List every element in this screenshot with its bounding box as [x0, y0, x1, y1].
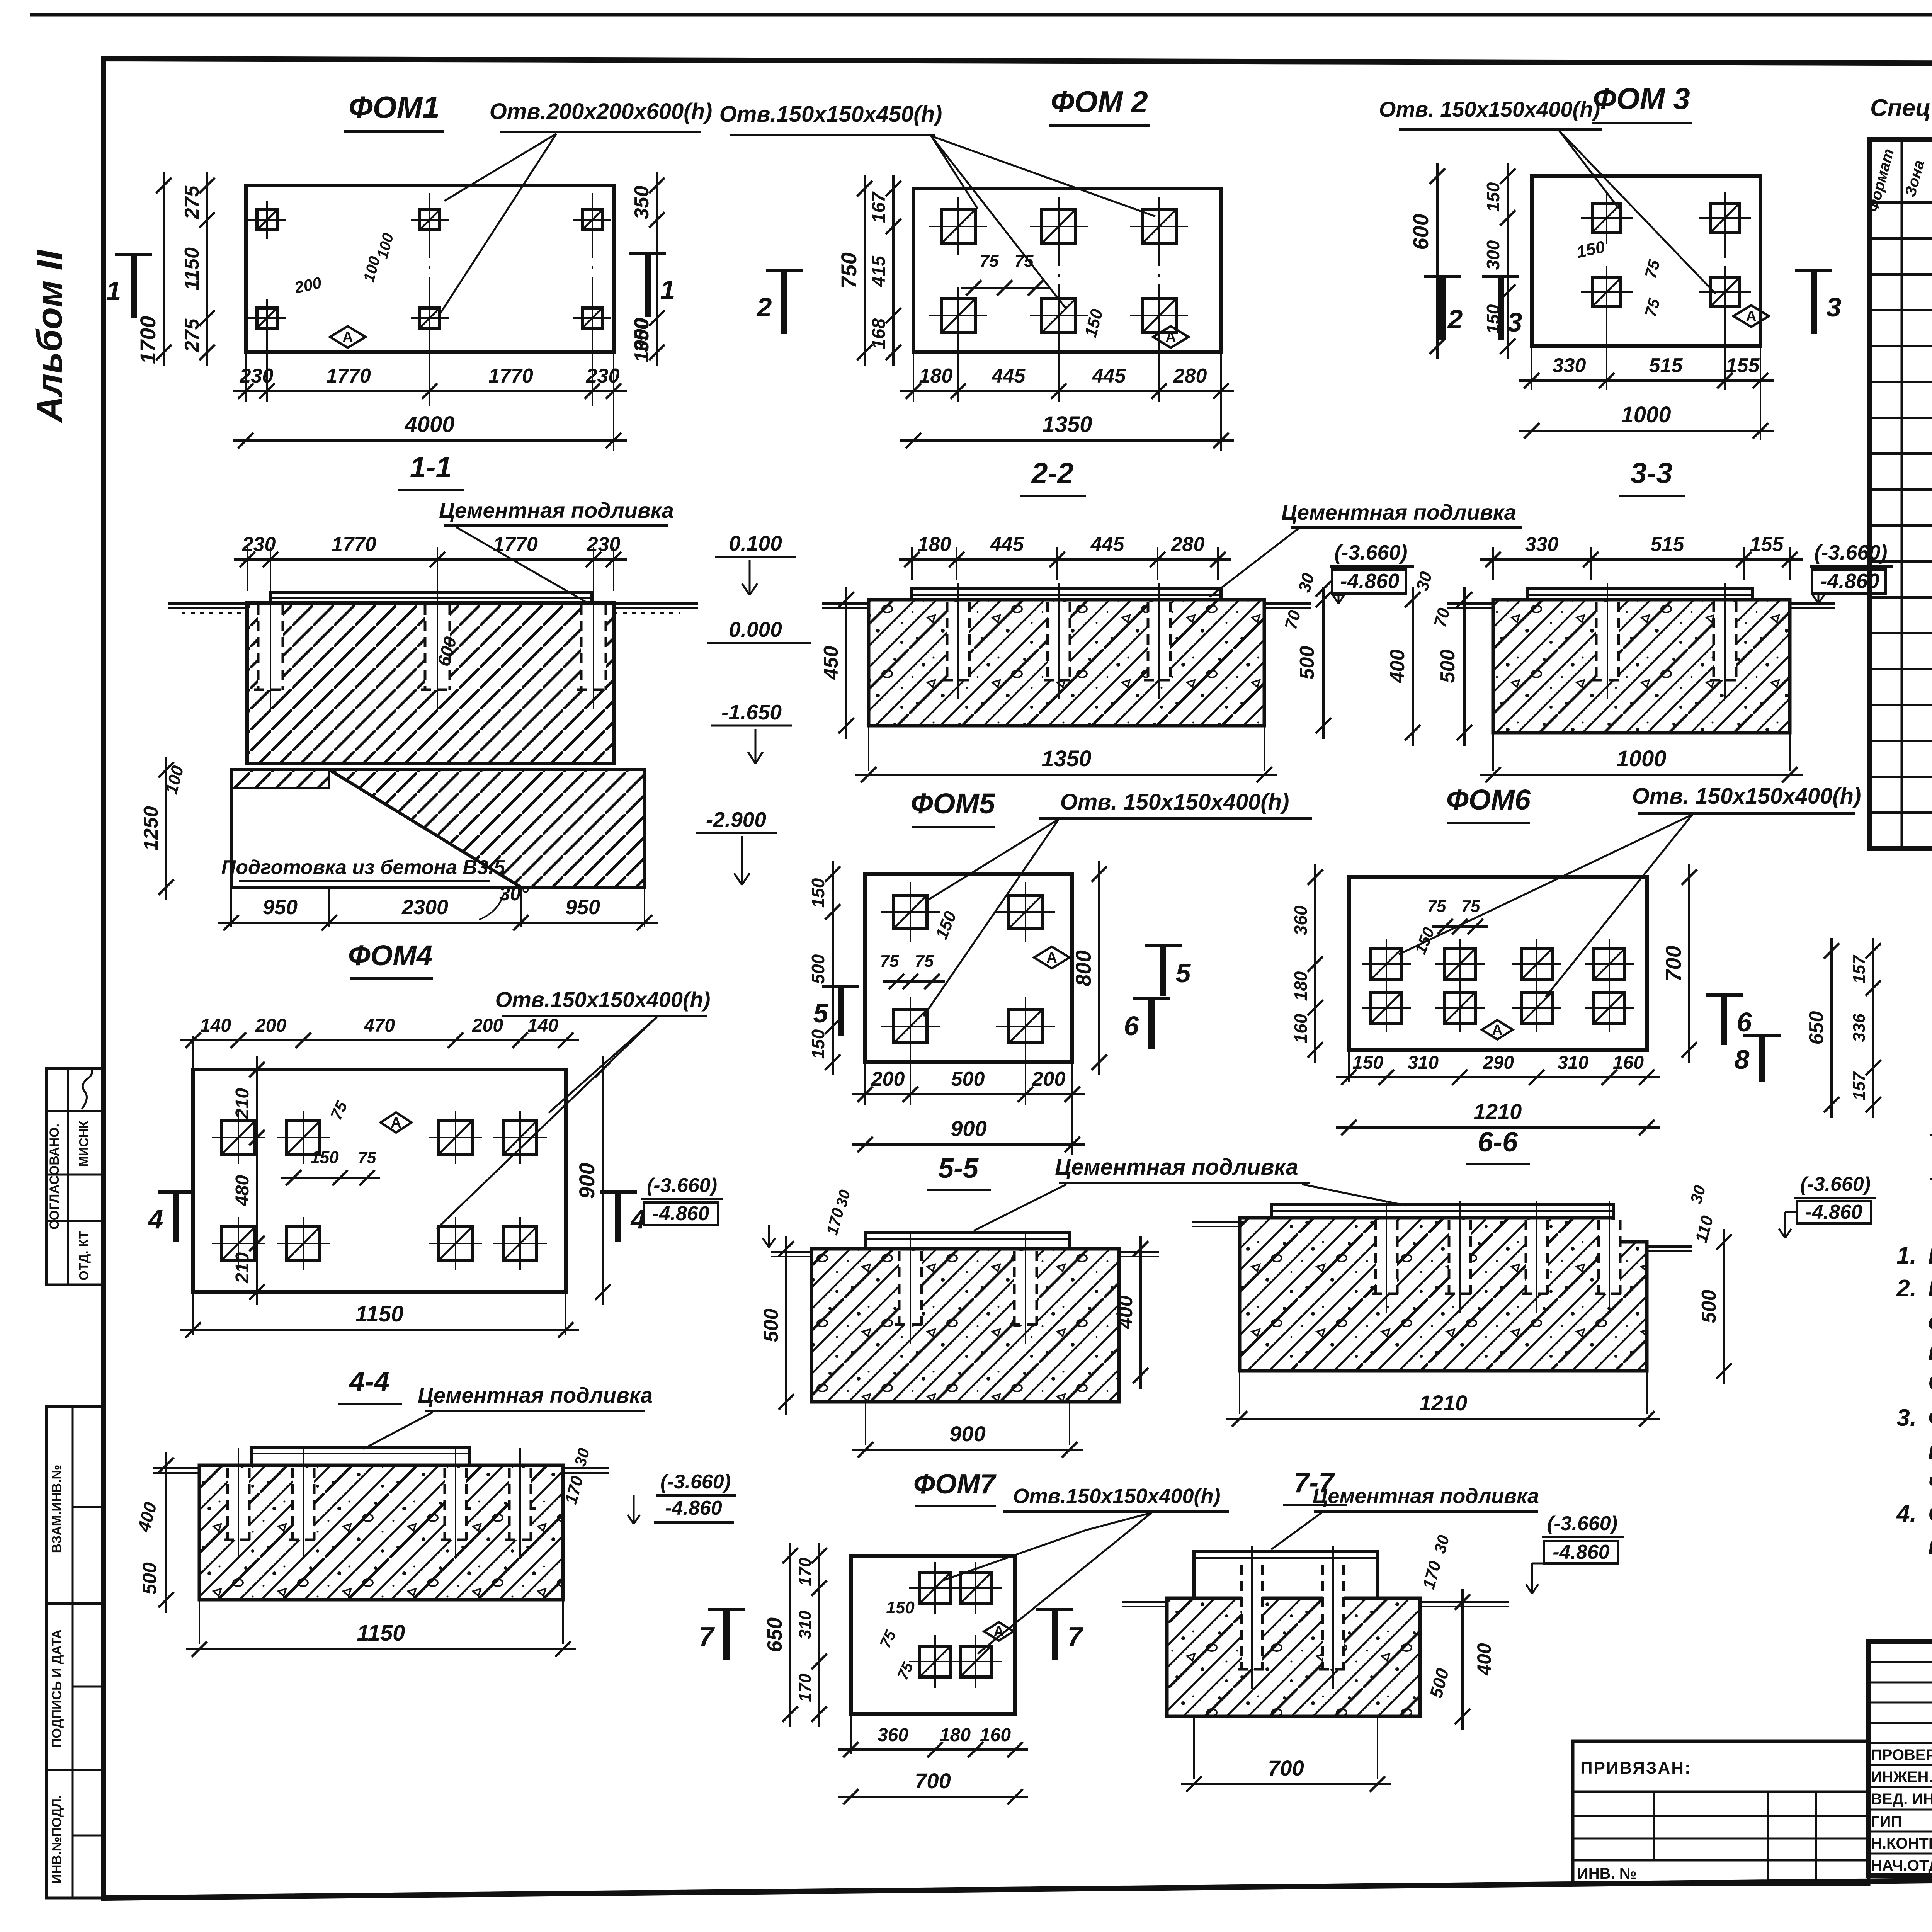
dim FOM2 bottom 1350	[900, 439, 1234, 442]
dim FOM1 bottom 4000	[233, 439, 627, 442]
spec table grid	[1870, 139, 1932, 849]
svg-text:180: 180	[940, 1725, 971, 1745]
plan FOM2 holes	[941, 209, 975, 243]
svg-text:445: 445	[1092, 365, 1126, 387]
section 2-2 floor lines	[822, 602, 869, 605]
svg-text:ФОМ6: ФОМ6	[1446, 784, 1531, 816]
dim FOM6 bottom 1210	[1336, 1126, 1660, 1129]
dim FOM8 left 157 336 157 650	[1872, 938, 1874, 1118]
leader cement 7-7	[1271, 1513, 1321, 1549]
svg-text:1150: 1150	[355, 1301, 404, 1327]
section 2-2 slab	[869, 600, 1264, 726]
leader to holes FOM6	[1399, 815, 1692, 954]
prep strip hatch	[231, 770, 329, 788]
svg-text:515: 515	[1649, 354, 1683, 377]
svg-text:1210: 1210	[1474, 1099, 1522, 1124]
svg-text:650: 650	[1805, 1011, 1828, 1045]
svg-text:500: 500	[808, 954, 828, 984]
svg-text:157: 157	[1850, 954, 1869, 984]
svg-text:Цементная подливка: Цементная подливка	[1055, 1155, 1298, 1180]
svg-text:А: А	[1746, 308, 1756, 325]
dim 5-5 right 400	[1139, 1236, 1142, 1389]
section 6-6 plinth	[1271, 1205, 1613, 1218]
svg-text:ФОМ 2: ФОМ 2	[1051, 85, 1148, 119]
svg-text:180: 180	[919, 365, 953, 387]
svg-text:336: 336	[1850, 1014, 1869, 1042]
plan FOM1 holes	[257, 210, 277, 230]
svg-text:1150: 1150	[357, 1621, 405, 1646]
svg-text:7: 7	[699, 1621, 715, 1651]
dim FOM2 bottom row1	[913, 352, 914, 402]
title block outline	[1869, 1642, 1932, 1876]
svg-text:500: 500	[1296, 646, 1318, 680]
leader to holes FOM5	[927, 819, 1059, 900]
section mark 3 left	[1482, 275, 1519, 278]
dim 2-2 left 450	[845, 587, 847, 739]
svg-text:160: 160	[1291, 1014, 1311, 1043]
svg-text:157: 157	[1850, 1071, 1869, 1100]
svg-text:-4.860: -4.860	[1805, 1201, 1862, 1223]
svg-text:170: 170	[796, 1558, 815, 1586]
svg-text:75: 75	[915, 952, 934, 971]
svg-text:150: 150	[808, 1029, 828, 1059]
marker A FOM7	[984, 1622, 1014, 1641]
section mark 6 left	[1133, 997, 1170, 1000]
bolt pockets 2-2	[947, 602, 969, 680]
svg-text:167: 167	[869, 191, 889, 223]
dim FOM3 left 150 300 150	[1507, 163, 1509, 359]
dim 2-2 top	[911, 547, 913, 580]
svg-text:-1.650: -1.650	[721, 700, 782, 724]
svg-text:75: 75	[980, 252, 999, 270]
svg-text:ГИП: ГИП	[1871, 1813, 1902, 1830]
svg-text:310: 310	[796, 1611, 815, 1639]
svg-text:ПРОВЕР.: ПРОВЕР.	[1871, 1747, 1932, 1764]
svg-text:3.: 3.	[1896, 1405, 1917, 1431]
leader to holes FOM2	[931, 136, 978, 209]
svg-text:700: 700	[915, 1769, 951, 1793]
svg-text:140: 140	[200, 1015, 231, 1036]
section 1-1 upper block	[247, 603, 614, 764]
dim FOM5 bottom 900	[852, 1143, 1085, 1146]
svg-text:Фундаменты под оборудование вы: Фундаменты под оборудование выполнять по…	[1928, 1405, 1932, 1431]
svg-text:Отв.200х200х600(h): Отв.200х200х600(h)	[490, 99, 713, 124]
svg-text:415: 415	[869, 255, 889, 287]
dim 1-1 bottom 950 2300 950	[230, 887, 232, 927]
svg-text:330: 330	[1525, 533, 1559, 556]
svg-text:ФОМ1: ФОМ1	[349, 90, 440, 124]
svg-text:700: 700	[1268, 1756, 1304, 1780]
svg-text:Отв. 150х150х400(h): Отв. 150х150х400(h)	[1632, 784, 1861, 809]
title block signature rows upper	[1869, 1661, 1932, 1663]
svg-text:75: 75	[1461, 897, 1480, 916]
section 7-7 plinth	[1194, 1552, 1378, 1598]
svg-text:А: А	[391, 1115, 401, 1131]
svg-text:150: 150	[808, 878, 828, 908]
svg-text:1770: 1770	[493, 533, 538, 556]
bolt pockets 4-4	[228, 1468, 249, 1540]
svg-text:170: 170	[796, 1673, 815, 1702]
svg-text:1700: 1700	[136, 316, 160, 364]
dim FOM3 bottom row1	[1531, 346, 1532, 390]
section 5-5 plinth	[866, 1233, 1070, 1249]
dim FOM7 bottom 700	[838, 1796, 1028, 1798]
svg-text:230: 230	[240, 365, 274, 387]
svg-text:700: 700	[1661, 946, 1685, 981]
marker A FOM2	[1153, 326, 1189, 348]
svg-text:450: 450	[820, 646, 842, 680]
svg-text:200: 200	[871, 1068, 905, 1090]
svg-text:ИНВ.№ПОДЛ.: ИНВ.№ПОДЛ.	[49, 1795, 64, 1884]
svg-text:-4.860: -4.860	[1553, 1541, 1610, 1563]
section 5-5 floor lines	[771, 1251, 811, 1253]
dim FOM2 left 750	[864, 175, 866, 366]
sidebar signature	[82, 1067, 92, 1109]
svg-text:(-3.660): (-3.660)	[647, 1174, 717, 1197]
section 1-1 floor lines	[168, 602, 247, 605]
svg-text:280: 280	[1173, 365, 1207, 387]
svg-text:НАЧ.ОТД: НАЧ.ОТД	[1871, 1857, 1932, 1874]
dim FOM5 bottom 200 500 200	[864, 1062, 866, 1105]
leader cement 6-6	[1302, 1184, 1406, 1206]
svg-text:ОТД. КТ: ОТД. КТ	[77, 1231, 91, 1281]
svg-text:200: 200	[1032, 1068, 1066, 1090]
svg-text:2-2: 2-2	[1031, 457, 1073, 489]
svg-text:5: 5	[813, 998, 829, 1028]
dim 1-1 lower left 1250	[165, 757, 167, 900]
svg-text:75: 75	[880, 952, 899, 971]
svg-text:445: 445	[990, 533, 1024, 556]
section mark 4 left	[158, 1190, 194, 1194]
svg-text:160: 160	[1613, 1053, 1644, 1073]
dim 2-2 bottom 1350	[868, 726, 869, 771]
leader to holes FOM4	[549, 1017, 657, 1113]
dim 5-5 left 500	[785, 1236, 787, 1415]
svg-text:Опоры бетонные под задвижки и: Опоры бетонные под задвижки и затворы ус…	[1928, 1500, 1932, 1527]
svg-text:Отв.150х150х400(h): Отв.150х150х400(h)	[1013, 1485, 1221, 1508]
svg-text:3-3: 3-3	[1631, 457, 1672, 489]
bolt pockets 3-3	[1596, 602, 1619, 680]
svg-text:230: 230	[242, 533, 276, 556]
section mark 3 right	[1795, 269, 1832, 272]
svg-text:5-5: 5-5	[938, 1153, 979, 1184]
svg-text:600: 600	[1408, 214, 1433, 250]
svg-text:500: 500	[139, 1562, 160, 1595]
svg-text:Цементная подливка: Цементная подливка	[1313, 1485, 1539, 1508]
svg-text:160: 160	[980, 1725, 1011, 1745]
svg-text:4: 4	[148, 1204, 163, 1234]
leader cement 1-1	[456, 527, 587, 603]
svg-text:400: 400	[1473, 1643, 1495, 1676]
svg-text:А: А	[1165, 329, 1176, 345]
svg-text:7: 7	[1068, 1621, 1084, 1651]
plan FOM3 col axes	[1724, 193, 1726, 379]
plan FOM3 holes	[1592, 204, 1621, 232]
svg-text:МИСНК: МИСНК	[77, 1121, 91, 1167]
bolt pocket 1-1 b	[425, 605, 450, 690]
sheet outer scan border top	[30, 13, 1932, 17]
svg-text:900: 900	[949, 1422, 985, 1446]
svg-text:2.: 2.	[1896, 1275, 1917, 1302]
dim 3-3 top	[1492, 547, 1494, 580]
section mark 7 right	[1036, 1608, 1073, 1611]
svg-text:ФОМ7: ФОМ7	[913, 1469, 997, 1500]
svg-text:1250: 1250	[140, 806, 162, 851]
dim 1-1 top	[247, 547, 248, 591]
plan FOM2 outline	[913, 189, 1221, 352]
svg-text:275: 275	[181, 185, 203, 220]
svg-text:1770: 1770	[488, 365, 533, 387]
marker A FOM4	[381, 1112, 412, 1133]
plan FOM2 col axes	[1058, 201, 1060, 406]
svg-text:А: А	[1492, 1022, 1502, 1038]
dim 6-6 bottom 1210	[1239, 1371, 1240, 1414]
svg-text:0.100: 0.100	[729, 531, 782, 555]
leader cement 5-5	[974, 1184, 1066, 1231]
svg-text:Бетонирование фундаментов ФОМ2: Бетонирование фундаментов ФОМ2÷ ФОМ 8 пр…	[1928, 1275, 1932, 1302]
svg-text:310: 310	[1408, 1053, 1439, 1073]
title block signature rows	[1869, 1764, 1932, 1766]
svg-text:-4.860: -4.860	[1340, 570, 1399, 593]
svg-text:4000: 4000	[404, 412, 454, 437]
svg-text:4-4: 4-4	[349, 1366, 389, 1397]
svg-text:515: 515	[1651, 533, 1685, 556]
dim FOM1 left 275 1150 275	[206, 172, 208, 366]
svg-text:350: 350	[631, 186, 653, 219]
bolt pocket 1-1 a	[258, 605, 283, 690]
svg-text:230: 230	[586, 365, 620, 387]
svg-text:1210: 1210	[1419, 1391, 1468, 1415]
svg-text:3: 3	[1827, 292, 1842, 322]
svg-text:1350: 1350	[1042, 412, 1092, 437]
svg-text:ВЗАМ.ИНВ.№: ВЗАМ.ИНВ.№	[49, 1465, 64, 1553]
svg-text:1-1: 1-1	[410, 451, 452, 483]
svg-text:1.: 1.	[1896, 1242, 1917, 1269]
plan FOM7 holes	[920, 1573, 951, 1604]
svg-text:500: 500	[1437, 650, 1459, 683]
svg-text:75: 75	[358, 1148, 376, 1167]
section 7-7 floor lines	[1122, 1601, 1167, 1603]
svg-text:230: 230	[587, 533, 621, 556]
svg-text:ФОМ5: ФОМ5	[911, 787, 996, 820]
svg-text:168: 168	[869, 318, 889, 349]
svg-text:ИНЖЕН.: ИНЖЕН.	[1871, 1769, 1932, 1786]
svg-text:445: 445	[992, 365, 1026, 387]
svg-text:500: 500	[760, 1309, 782, 1342]
section mark 2 left	[766, 269, 803, 272]
svg-text:480: 480	[232, 1175, 253, 1206]
svg-text:Отв. 150х150х400(h): Отв. 150х150х400(h)	[1379, 97, 1600, 121]
section 1-1 plinth	[270, 593, 592, 603]
plan FOM5 holes	[894, 895, 927, 929]
dim 4-4 bottom 1150	[199, 1600, 200, 1644]
svg-text:(-3.660): (-3.660)	[1547, 1512, 1617, 1535]
plan FOM3 outline	[1532, 176, 1760, 346]
svg-text:280: 280	[1171, 533, 1205, 556]
bolt pockets 5-5	[899, 1251, 922, 1325]
marker A FOM1	[330, 326, 366, 348]
svg-text:150: 150	[1352, 1053, 1383, 1073]
dim FOM1 right 350 1000 350	[656, 172, 658, 366]
svg-text:155: 155	[1726, 354, 1760, 377]
dim FOM4 top 140 200 470 200 140	[192, 1036, 194, 1070]
svg-text:-4.860: -4.860	[665, 1497, 722, 1519]
svg-text:6-6: 6-6	[1478, 1127, 1518, 1158]
svg-text:310: 310	[1558, 1053, 1588, 1073]
svg-text:210: 210	[232, 1252, 253, 1284]
dim FOM5 left 150 500 150	[832, 861, 834, 1075]
dim FOM7 bottom 360 180 160	[850, 1714, 852, 1754]
section mark 5 left	[822, 985, 859, 988]
svg-text:1: 1	[106, 276, 121, 306]
section mark 6 right	[1706, 993, 1743, 997]
svg-text:Спецификация монолитных фундам: Спецификация монолитных фундаментов под …	[1870, 95, 1932, 121]
dim FOM4 left 210 480 210	[256, 1056, 258, 1305]
svg-text:(-3.660): (-3.660)	[660, 1471, 731, 1493]
svg-text:получения оборудования и сверк: получения оборудования и сверки с заводс…	[1928, 1437, 1932, 1464]
svg-text:2: 2	[756, 292, 772, 322]
svg-text:330: 330	[1553, 354, 1586, 377]
svg-text:Подготовка из бетона В3.5: Подготовка из бетона В3.5	[221, 856, 505, 879]
section 5-5 slab	[811, 1249, 1119, 1402]
plan FOM4 outline	[193, 1070, 566, 1292]
sidebar stamp table 2	[46, 1406, 104, 1898]
dim FOM6 left 360 180 160	[1314, 864, 1316, 1063]
svg-text:900: 900	[951, 1116, 986, 1141]
section 6-6 floor lines	[1192, 1221, 1240, 1223]
sidebar stamp table 1	[46, 1068, 104, 1285]
section mark 2 right	[1424, 275, 1461, 278]
svg-text:1: 1	[660, 275, 675, 305]
svg-text:140: 140	[527, 1015, 558, 1036]
svg-text:ПОДПИСЬ И ДАТА: ПОДПИСЬ И ДАТА	[49, 1629, 64, 1748]
svg-text:150: 150	[310, 1148, 339, 1167]
svg-text:СОГЛАСОВАНО.: СОГЛАСОВАНО.	[47, 1124, 62, 1230]
svg-text:навливать по чертежам марки тх: навливать по чертежам марки тх3; тх4.	[1928, 1533, 1932, 1560]
svg-text:А: А	[342, 329, 353, 345]
svg-text:А: А	[1046, 950, 1057, 966]
svg-text:1000: 1000	[631, 318, 653, 362]
plan FOM4 holes	[222, 1121, 255, 1154]
marker A FOM6	[1482, 1020, 1513, 1039]
dim FOM4 right 900	[602, 1056, 604, 1305]
dim 3-3 bottom 1000	[1492, 733, 1494, 771]
dim FOM8 bottom 1100	[1930, 1178, 1932, 1180]
svg-text:290: 290	[1483, 1053, 1514, 1073]
svg-text:чертежами.: чертежами.	[1928, 1468, 1932, 1495]
leader cement 4-4	[363, 1412, 433, 1449]
svg-text:2: 2	[1447, 304, 1463, 334]
svg-text:-4.860: -4.860	[652, 1202, 709, 1225]
svg-text:Цементная подливка: Цементная подливка	[418, 1383, 653, 1407]
dim FOM6 bottom 150 310 290 310 160	[1348, 1050, 1350, 1082]
svg-text:1000: 1000	[1621, 402, 1671, 427]
plan FOM6 outline	[1349, 877, 1647, 1050]
dim FOM5 right 800	[1098, 861, 1100, 1075]
plan FOM1 outline	[246, 185, 614, 352]
dim FOM1 bottom row1	[245, 352, 247, 402]
plan FOM6 holes	[1371, 949, 1402, 980]
svg-text:200: 200	[472, 1015, 503, 1036]
leader to holes FOM3	[1559, 131, 1619, 209]
svg-text:ВЕД. ИНЖ.: ВЕД. ИНЖ.	[1871, 1791, 1932, 1808]
svg-text:ИНВ. №: ИНВ. №	[1577, 1865, 1636, 1882]
section mark 8 plan	[1743, 1034, 1781, 1037]
svg-text:3: 3	[1507, 307, 1522, 337]
svg-text:150: 150	[886, 1598, 915, 1617]
marker A FOM5	[1034, 947, 1070, 968]
plan FOM5 outline	[865, 874, 1072, 1062]
svg-text:5: 5	[1176, 958, 1191, 988]
svg-text:210: 210	[232, 1088, 253, 1119]
svg-text:400: 400	[1114, 1296, 1137, 1330]
svg-text:Альбом II: Альбом II	[29, 249, 70, 423]
svg-text:1350: 1350	[1041, 746, 1091, 771]
bolt pockets 6-6	[1376, 1220, 1397, 1294]
svg-text:470: 470	[364, 1015, 395, 1036]
leader cement 2-2	[1209, 529, 1298, 597]
dim 7-7 bottom 700	[1193, 1716, 1195, 1779]
marker A FOM3	[1733, 305, 1769, 327]
svg-text:300: 300	[1483, 240, 1503, 270]
dim FOM3 bottom 1000	[1519, 430, 1774, 432]
svg-text:400: 400	[1386, 650, 1409, 684]
svg-text:Цементная подливка: Цементная подливка	[1281, 500, 1516, 524]
section 4-4 plinth	[252, 1447, 470, 1465]
svg-text:ФОМ4: ФОМ4	[348, 939, 432, 971]
section 6-6 slab	[1240, 1218, 1647, 1371]
privyazan table	[1573, 1741, 1869, 1884]
svg-text:950: 950	[263, 896, 298, 919]
bolt pockets 7-7	[1242, 1565, 1262, 1669]
svg-text:150: 150	[1483, 182, 1503, 212]
svg-text:750: 750	[837, 252, 861, 288]
svg-text:6: 6	[1737, 1007, 1752, 1037]
svg-text:подвала.: подвала.	[1928, 1339, 1932, 1366]
svg-text:Отв. 150х150х400(h): Отв. 150х150х400(h)	[1060, 789, 1289, 815]
leader to holes FOM7	[943, 1513, 1151, 1580]
svg-text:75: 75	[1015, 252, 1034, 270]
section 4-4 slab	[199, 1465, 563, 1600]
bolt pocket 1-1 c	[581, 605, 606, 690]
svg-text:0.000: 0.000	[729, 617, 782, 641]
dim FOM6 right 700	[1688, 864, 1690, 1063]
dim FOM3 left 600	[1436, 163, 1439, 359]
svg-text:360: 360	[1291, 905, 1311, 935]
svg-text:650: 650	[763, 1617, 786, 1652]
svg-text:155: 155	[1750, 533, 1784, 556]
svg-text:180: 180	[918, 533, 951, 556]
section 3-3 plinth	[1527, 589, 1753, 600]
svg-text:План фундаментов под оборудова: План фундаментов под оборудование см. че…	[1928, 1242, 1932, 1269]
svg-text:Отв.150х150х400(h): Отв.150х150х400(h)	[495, 987, 711, 1012]
dim 3-3 left 400 70 500	[1412, 587, 1414, 746]
dim FOM4 bottom 1150	[192, 1292, 194, 1335]
section mark 5 right	[1145, 944, 1182, 947]
dim FOM1 left 1700	[163, 172, 165, 366]
svg-text:1000: 1000	[1616, 746, 1666, 771]
plan FOM7 outline	[851, 1556, 1015, 1714]
svg-text:500: 500	[951, 1068, 985, 1090]
section 2-2 plinth	[912, 589, 1221, 600]
section 7-7 slab	[1167, 1598, 1420, 1716]
svg-text:950: 950	[565, 896, 600, 919]
section mark 4 right	[600, 1190, 637, 1194]
svg-text:2300: 2300	[401, 896, 448, 919]
svg-text:Опалубку подвала см. черт. КЖ: Опалубку подвала см. черт. КЖ-10.	[1928, 1369, 1932, 1396]
svg-text:4.: 4.	[1896, 1500, 1917, 1527]
svg-text:500: 500	[1698, 1290, 1720, 1323]
